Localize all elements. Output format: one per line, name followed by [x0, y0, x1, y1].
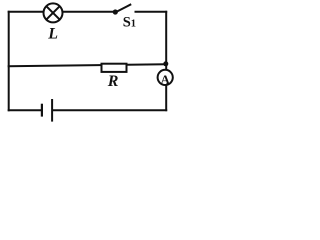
- svg-text:S1: S1: [123, 15, 136, 31]
- wire left vertical: [8, 11, 10, 111]
- switch S1: [113, 4, 131, 14]
- wire bottom left segment: [8, 109, 42, 111]
- wire top left segment: [8, 11, 44, 13]
- svg-text:L: L: [47, 26, 58, 43]
- node junction dot: [163, 61, 168, 66]
- svg-text:A: A: [161, 72, 171, 87]
- wire top right segment: [135, 11, 168, 13]
- wire right vertical lower: [165, 86, 167, 112]
- svg-text:R: R: [107, 73, 119, 90]
- ammeter A: [158, 70, 173, 87]
- wire bottom right segment: [53, 109, 167, 111]
- wire top middle segment: [63, 11, 115, 13]
- lamp L: [44, 3, 63, 22]
- wire middle horizontal: [8, 64, 166, 66]
- resistor R: [102, 64, 127, 72]
- wire right vertical upper: [165, 11, 167, 70]
- battery cell: [42, 99, 52, 122]
